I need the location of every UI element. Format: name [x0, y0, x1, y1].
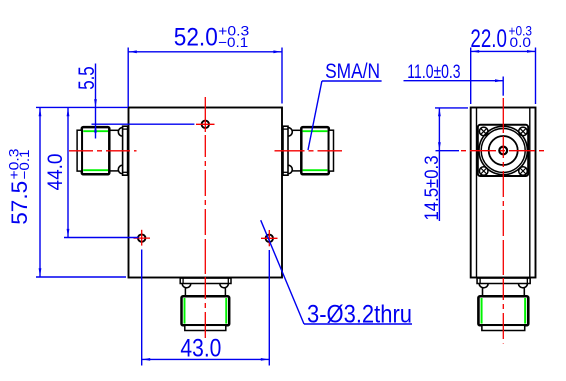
svg-text:44.0: 44.0 — [44, 154, 67, 191]
connector circles (side view face) — [479, 126, 527, 174]
dimension 22.0 +0.3/0.0 (side view width) — [471, 48, 536, 105]
svg-text:SMA/N: SMA/N — [325, 60, 380, 83]
SMA connector right (mirror of left) — [283, 126, 334, 175]
neck lines — [109, 129, 118, 131]
centerline vertical side view connector axis — [502, 98, 504, 344]
nut — [182, 296, 230, 325]
hole bottom-right (mounting hole) — [261, 230, 278, 246]
svg-text:14.5±0.3: 14.5±0.3 — [422, 156, 443, 221]
centerline left connector axis — [69, 150, 137, 152]
svg-text:−0.1: −0.1 — [218, 34, 248, 50]
fillet arcs — [118, 128, 122, 137]
svg-text:57.5: 57.5 — [7, 181, 32, 225]
flange — [123, 126, 128, 175]
label 3-diam3.2thru with leader — [261, 220, 412, 324]
svg-text:11.0±0.3: 11.0±0.3 — [407, 62, 460, 83]
svg-text:43.0: 43.0 — [180, 334, 221, 362]
svg-text:−0.1: −0.1 — [16, 149, 32, 179]
svg-text:0.0: 0.0 — [510, 34, 532, 50]
flange — [180, 278, 231, 283]
flange screws (4x) — [479, 127, 527, 175]
hole bottom-left (mounting hole) — [134, 230, 151, 246]
N connector bottom (side view) — [477, 278, 530, 330]
dimension 11.0±0.3 (connector offset side view) — [404, 77, 504, 96]
face — [185, 325, 226, 330]
centerline vertical front view body axis — [204, 97, 206, 339]
dimension 57.5 +0.3/-0.1 (body height) — [36, 108, 126, 277]
SMA connector left (side profile) — [77, 126, 128, 175]
dimension 44.0 (holes vertical spacing) — [64, 108, 139, 238]
svg-text:3-Ø3.2thru: 3-Ø3.2thru — [307, 301, 412, 329]
svg-text:22.0: 22.0 — [470, 25, 507, 53]
centerline right connector axis — [275, 150, 343, 152]
dimension 43.0 (bottom holes spacing) — [142, 250, 270, 366]
body outline side view — [471, 108, 536, 278]
label SMA/N with leader — [308, 81, 382, 150]
fillet arcs — [182, 284, 191, 288]
svg-text:5.5: 5.5 — [74, 66, 99, 90]
dimension 5.5 (top hole offset) — [36, 64, 194, 139]
svg-text:52.0: 52.0 — [174, 24, 218, 52]
neck lines — [184, 288, 186, 297]
hole top (mounting hole) — [196, 121, 215, 128]
nut — [82, 127, 110, 174]
body outline front view — [129, 108, 283, 278]
N connector bottom (front view) — [180, 278, 231, 330]
centerline horizontal side view connector axis — [461, 150, 546, 152]
face — [77, 130, 82, 171]
N connector face flange (side view) — [478, 125, 528, 176]
dimension 52.0 +0.3/-0.1 (top width, front view) — [128, 48, 282, 107]
dimension 14.5±0.3 (connector height side view) — [435, 108, 468, 221]
